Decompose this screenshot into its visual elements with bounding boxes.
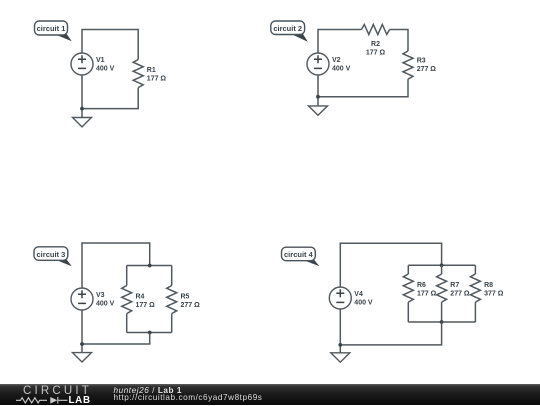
svg-text:circuit 1: circuit 1 (37, 24, 66, 33)
branch stub R6 bottom (407, 302, 409, 322)
svg-text:V2: V2 (332, 57, 341, 64)
svg-text:R4: R4 (136, 294, 145, 301)
callout bubble "circuit 1" (35, 21, 72, 41)
node bottom rail (c4) (440, 320, 444, 324)
resistor R5 (167, 286, 200, 314)
wire top-right (c2) (390, 30, 408, 52)
svg-text:400 V: 400 V (96, 66, 115, 73)
branch stub R7 bottom (441, 302, 443, 322)
ground (c4) (331, 353, 350, 362)
wire bottom (c2) (318, 75, 408, 97)
ground (c3) (73, 353, 92, 362)
footer bar (0, 384, 540, 405)
wire bottom (c1) (82, 75, 138, 109)
resistor R4 (122, 286, 155, 314)
branch stub R6 top (407, 265, 409, 274)
node (c3) (80, 342, 84, 346)
svg-text:R5: R5 (181, 294, 190, 301)
wire top-left (c2) (318, 30, 362, 54)
svg-text:R7: R7 (450, 282, 459, 289)
voltage source V2 (307, 53, 351, 75)
logo LAB (69, 395, 91, 406)
branch stub R7 top (441, 265, 443, 274)
svg-text:circuit 2: circuit 2 (273, 24, 302, 33)
node (c2) (316, 95, 320, 99)
ground (c1) (73, 118, 92, 127)
branch stub R8 bottom (474, 302, 476, 322)
resistor R8 (470, 274, 503, 302)
wire top (c3) (82, 243, 150, 288)
wire to ground (c2) (317, 97, 319, 106)
callout bubble "circuit 3" (34, 247, 72, 266)
svg-text:V3: V3 (96, 292, 105, 299)
wire bottom (c4) (340, 309, 441, 345)
parallel top rail (c4) (408, 264, 475, 266)
node bottom rail (c3) (148, 331, 152, 335)
resistor R3 (403, 51, 436, 79)
svg-text:400 V: 400 V (332, 66, 351, 73)
branch stub R5 bottom (171, 314, 173, 333)
wire to ground (c1) (81, 109, 83, 118)
node top (c4) (440, 263, 444, 267)
svg-text:177 Ω: 177 Ω (366, 50, 386, 57)
footer line 1 (114, 386, 182, 395)
svg-text:R1: R1 (147, 67, 156, 74)
resistor R1 (133, 60, 166, 88)
callout bubble "circuit 2" (271, 21, 308, 42)
voltage source V3 (71, 288, 115, 310)
voltage source V1 (71, 53, 115, 75)
parallel bottom rail (c3) (127, 332, 172, 334)
svg-text:400 V: 400 V (354, 300, 373, 307)
wire top (c4) (340, 243, 441, 287)
footer line 2 (114, 393, 263, 402)
node (c1) (80, 107, 84, 111)
parallel top rail (c3) (127, 265, 172, 267)
svg-text:377 Ω: 377 Ω (484, 291, 504, 298)
ground (c2) (309, 106, 328, 115)
branch stub R5 top (171, 266, 173, 286)
callout bubble "circuit 4" (282, 247, 320, 266)
svg-text:circuit 3: circuit 3 (37, 250, 66, 259)
node (c4) (338, 343, 342, 347)
resistor R6 (403, 274, 436, 302)
voltage source V4 (329, 287, 373, 309)
svg-text:R3: R3 (417, 58, 426, 65)
svg-text:R8: R8 (484, 282, 493, 289)
wire to ground (c3) (81, 344, 83, 353)
wire bottom (c3) (82, 310, 150, 344)
svg-text:177 Ω: 177 Ω (417, 291, 437, 298)
svg-text:277 Ω: 277 Ω (181, 302, 201, 309)
wire top (c1) (82, 30, 138, 60)
resistor R2 (362, 25, 390, 57)
svg-text:277 Ω: 277 Ω (417, 66, 437, 73)
svg-text:277 Ω: 277 Ω (450, 291, 470, 298)
resistor R7 (437, 274, 470, 302)
parallel bottom rail (c4) (408, 321, 475, 323)
branch stub R8 top (474, 265, 476, 274)
logo wire glyph: resistor + diode (16, 396, 69, 405)
CircuitLab logo wordmark (23, 385, 92, 397)
svg-text:177 Ω: 177 Ω (136, 302, 156, 309)
svg-text:V1: V1 (96, 57, 105, 64)
node top (c3) (148, 264, 152, 268)
svg-text:circuit 4: circuit 4 (284, 250, 314, 259)
branch stub R4 top (126, 266, 128, 286)
svg-text:400 V: 400 V (96, 301, 115, 308)
svg-text:R6: R6 (417, 282, 426, 289)
svg-text:177 Ω: 177 Ω (147, 76, 167, 83)
svg-text:V4: V4 (354, 291, 363, 298)
branch stub R4 bottom (126, 314, 128, 333)
wire to ground (c4) (339, 345, 341, 353)
svg-text:R2: R2 (371, 41, 380, 48)
